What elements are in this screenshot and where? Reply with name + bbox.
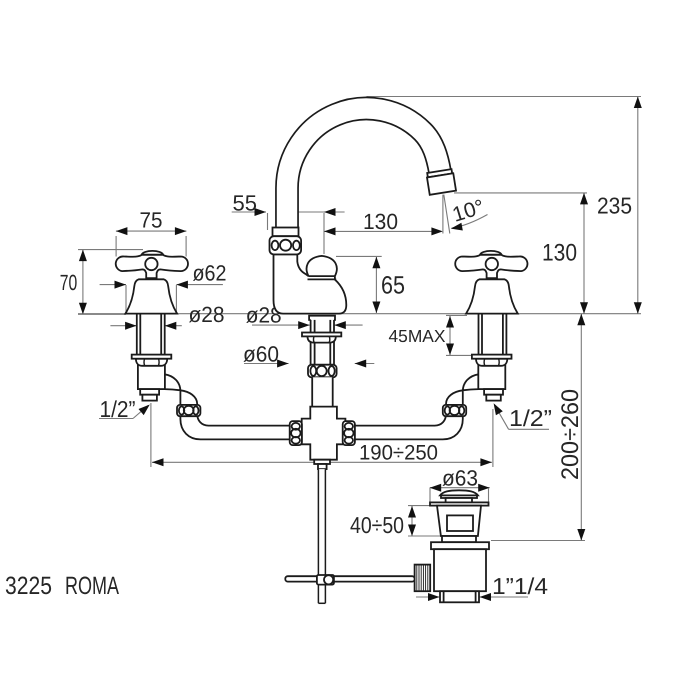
left bell base <box>125 279 177 313</box>
svg-text:55: 55 <box>233 191 258 216</box>
dim diameter 28 left shank <box>110 302 224 330</box>
cross fitting right nut <box>343 421 355 445</box>
cross bottom collar <box>314 460 330 469</box>
angle 10 degrees water stream <box>443 195 488 234</box>
dim diameter 63 drain cap <box>430 466 490 504</box>
svg-text:130: 130 <box>542 240 577 267</box>
center supply nut <box>308 365 337 378</box>
extension line drain flange level <box>491 540 585 542</box>
dim 55 <box>232 191 345 255</box>
extension line spout top level <box>367 96 642 98</box>
svg-text:1”1/4: 1”1/4 <box>492 573 548 599</box>
riser collar nut <box>270 228 302 255</box>
svg-text:ø62: ø62 <box>193 261 227 286</box>
left supply pipe <box>180 414 290 439</box>
svg-text:1/2”: 1/2” <box>100 396 136 422</box>
dim diameter 62 bell <box>100 261 227 314</box>
right bell base <box>466 279 518 313</box>
center shank <box>311 318 334 365</box>
svg-text:235: 235 <box>597 193 632 219</box>
dim 1 inch 1/4 drain outlet <box>416 573 548 601</box>
svg-text:ø63: ø63 <box>442 466 478 491</box>
label 1/2 inch left connection <box>99 396 150 422</box>
svg-text:75: 75 <box>140 208 163 233</box>
left cross handle <box>116 251 188 278</box>
label 1/2 inch right connection <box>494 403 552 431</box>
dim 40÷50 <box>350 506 441 538</box>
gooseneck spout tube <box>287 109 440 240</box>
right cross handle <box>455 251 527 278</box>
center lower pipe <box>312 377 333 406</box>
dim 190÷250 <box>151 403 493 467</box>
dim 200÷260 <box>557 314 585 541</box>
dim diameter 60 <box>243 342 374 368</box>
center mounting flange and nut <box>302 333 341 343</box>
horizontal lever rod <box>285 576 414 581</box>
svg-text:ø28: ø28 <box>189 302 225 327</box>
svg-text:190÷250: 190÷250 <box>359 442 438 465</box>
svg-text:3225: 3225 <box>5 572 52 600</box>
spout body center <box>274 255 347 314</box>
svg-text:130: 130 <box>363 209 398 234</box>
pop-up vertical rod <box>318 469 325 603</box>
right supply pipe <box>353 414 463 439</box>
dim 45MAX <box>389 315 474 355</box>
left valve under deck <box>132 312 201 416</box>
dim 70 handle height <box>60 250 143 315</box>
drain knurled nut <box>415 565 431 592</box>
cross fitting left nut <box>290 421 302 445</box>
pop-up drain assembly <box>430 490 489 602</box>
svg-text:1/2”: 1/2” <box>509 405 552 431</box>
cross fitting body <box>302 407 346 460</box>
dim diameter 28 center shank <box>246 303 363 330</box>
right valve under deck <box>443 312 512 416</box>
dim 130 horizontal <box>324 209 443 235</box>
dim 235 <box>597 97 642 314</box>
svg-text:ROMA: ROMA <box>65 572 119 600</box>
svg-text:70: 70 <box>60 270 78 295</box>
svg-text:40÷50: 40÷50 <box>350 512 404 538</box>
svg-text:ø60: ø60 <box>243 342 279 367</box>
title 3225 ROMA <box>5 572 119 600</box>
svg-text:200÷260: 200÷260 <box>557 389 584 480</box>
spout aerator tip <box>426 169 456 195</box>
svg-text:45MAX: 45MAX <box>389 326 446 346</box>
rod clamp and pivot ball <box>317 575 334 585</box>
dim 65 body height <box>336 256 405 313</box>
dim 75 handle width <box>116 208 186 257</box>
svg-text:65: 65 <box>381 272 405 300</box>
center step plate <box>309 316 335 320</box>
extension line deck level <box>78 313 641 315</box>
extension line spout outlet level <box>454 192 587 194</box>
dim 130 vertical <box>542 193 588 314</box>
